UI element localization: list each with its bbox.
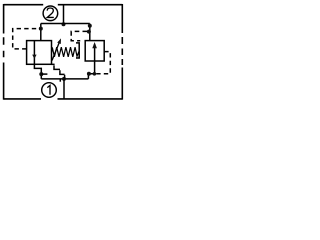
node: drain branch dot — [39, 72, 43, 76]
spring for valve V1 — [52, 47, 79, 57]
node: pilot branch dot — [39, 27, 43, 31]
node: check line junction dot — [93, 72, 97, 76]
spring adjustment arrow — [52, 42, 60, 61]
drain line (dashed) spring chamber staircase — [52, 64, 65, 78]
valve V1 flow arrow (down) — [32, 55, 36, 59]
pilot line (dashed) to spring chamber — [71, 31, 89, 40]
node: port 2 junction dot — [62, 22, 66, 26]
port 1 circle — [42, 83, 57, 98]
wire: top horizontal line — [41, 23, 90, 25]
check valve C1 envelope box — [85, 41, 104, 61]
node: check outlet dot — [87, 72, 91, 76]
envelope top border — [4, 4, 123, 6]
pilot line (dashed) left loop — [13, 29, 41, 49]
port 2 circle — [43, 6, 58, 21]
node: right corner dot — [88, 24, 92, 28]
wire: port 2 stub — [63, 5, 65, 24]
valve V1 envelope box — [27, 41, 52, 65]
wire: port 1 tick — [59, 79, 61, 82]
envelope bottom border — [4, 98, 123, 100]
check valve flow arrow (up) — [92, 42, 97, 48]
wire: drain branch stub — [41, 73, 47, 75]
node: port 1 junction dot — [62, 77, 66, 81]
wire: port 1 stub — [63, 79, 65, 99]
wire: right drop to check top — [89, 24, 91, 41]
wire: valve internal flow line — [33, 41, 35, 65]
pilot line (dashed) right vent loop — [95, 52, 111, 74]
wire: left drop to valve top — [40, 24, 42, 41]
spring anchor bracket — [76, 43, 79, 58]
node: right pilot branch dot — [87, 30, 91, 34]
wire: bottom drain line — [41, 78, 88, 80]
wire: valve outlet elbow — [34, 64, 41, 79]
envelope left border — [3, 4, 5, 100]
envelope right border — [121, 4, 123, 100]
wire: drain right elbow up — [88, 61, 94, 79]
wire: check internal line — [94, 44, 96, 61]
